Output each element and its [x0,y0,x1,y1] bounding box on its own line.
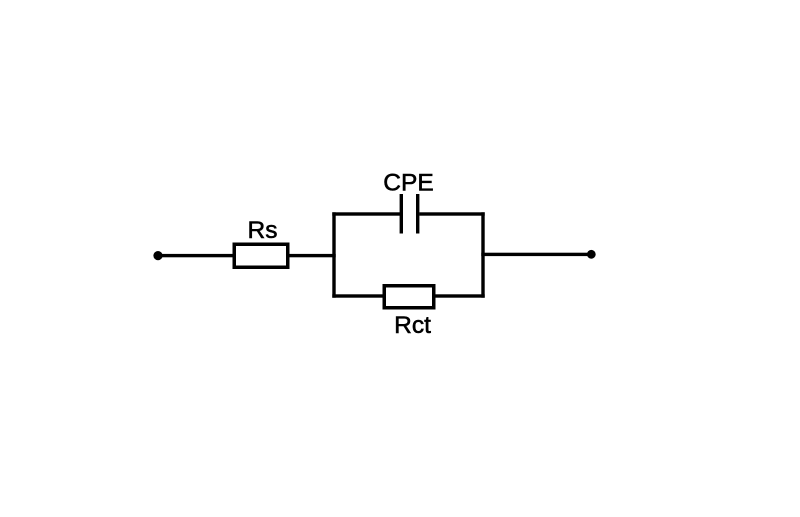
wire: right lead from parallel block to terminal [481,253,591,256]
svg-text:Rct: Rct [394,312,431,339]
node: right terminal dot [587,250,596,259]
wire: bottom branch right segment from Rct [434,294,485,297]
resistor Rs [234,244,288,267]
capacitor CPE left plate [400,194,403,234]
svg-text:Rs: Rs [248,217,278,244]
wire: top branch left segment to CPE [332,212,403,215]
wire: top branch right segment from CPE [419,212,484,215]
wire: bottom branch left segment to Rct [332,294,384,297]
resistor Rct [384,286,434,308]
wire: Rs to parallel block [290,254,336,257]
wire: parallel loop right vertical [481,212,484,297]
wire: left lead from terminal to Rs [157,254,236,257]
wire: parallel loop left vertical [332,212,335,297]
capacitor CPE right plate [416,194,419,234]
node: left terminal dot [153,251,162,260]
svg-text:CPE: CPE [383,170,433,197]
